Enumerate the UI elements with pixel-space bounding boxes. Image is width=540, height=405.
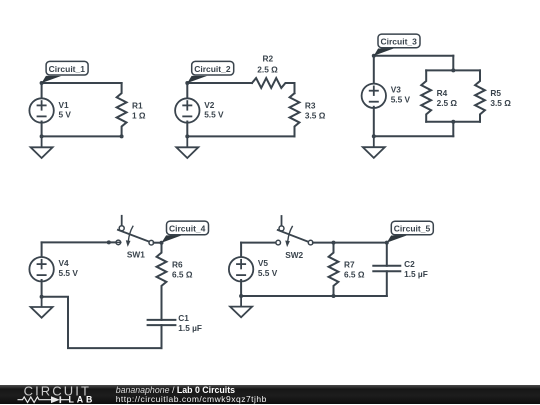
node dot top V3 xyxy=(372,54,376,58)
node dot R7 top xyxy=(332,241,336,245)
V2 value label xyxy=(204,100,224,120)
resistor R6 xyxy=(157,243,167,296)
svg-text:1 Ω: 1 Ω xyxy=(132,110,146,120)
ground C3 xyxy=(363,136,385,158)
svg-text:6.5 Ω: 6.5 Ω xyxy=(172,270,193,280)
node dot bottom R1 xyxy=(120,134,124,138)
node dot bottom V4 xyxy=(40,295,44,299)
ground C5 xyxy=(230,296,252,317)
wire V3 bottom lead xyxy=(373,107,375,136)
resistor R5 xyxy=(475,70,485,121)
wire V2 to R2 xyxy=(187,82,252,84)
voltage source V1 xyxy=(29,98,53,122)
voltage source V3 xyxy=(362,84,386,108)
svg-text:V1: V1 xyxy=(59,100,70,110)
switch SW1 xyxy=(116,216,154,247)
wire V3 top lead xyxy=(373,56,375,83)
R2 value label xyxy=(257,54,278,75)
svg-text:3.5 Ω: 3.5 Ω xyxy=(305,110,326,120)
R3 value label xyxy=(305,100,326,120)
ground C2 xyxy=(176,136,198,158)
node dot top V2 xyxy=(185,81,189,85)
svg-text:SW1: SW1 xyxy=(127,250,145,260)
wire V5 to SW2 xyxy=(241,242,276,244)
wire R6 to C1cap xyxy=(161,296,163,320)
wire C1cap down xyxy=(161,325,163,348)
wire bottom C4 xyxy=(42,297,162,348)
svg-text:SW2: SW2 xyxy=(285,250,303,260)
svg-text:V2: V2 xyxy=(204,100,215,110)
svg-text:5.5 V: 5.5 V xyxy=(59,268,79,278)
wire bottom of R5 to junction xyxy=(453,121,480,123)
wire SW2 to R7 xyxy=(313,242,334,244)
svg-text:5.5 V: 5.5 V xyxy=(258,268,278,278)
wire top C1 xyxy=(42,82,122,84)
label callout Circuit_4 xyxy=(162,221,209,243)
svg-text:R6: R6 xyxy=(172,260,183,270)
R7 value label xyxy=(344,260,365,280)
voltage source V2 xyxy=(175,98,199,122)
switch SW2 xyxy=(276,216,313,247)
node dot bottom V2 xyxy=(185,134,189,138)
wire top C3 xyxy=(374,55,454,57)
node dot R7 bottom xyxy=(332,294,336,298)
ground C1 xyxy=(31,136,53,158)
C2 value label xyxy=(404,259,428,279)
wire V5 bottom lead xyxy=(240,280,242,296)
node dot bottom V5 xyxy=(239,294,243,298)
svg-text:3.5 Ω: 3.5 Ω xyxy=(490,98,511,108)
node dot C2 top xyxy=(385,241,389,245)
voltage source V4 xyxy=(29,257,53,281)
svg-text:Circuit_4: Circuit_4 xyxy=(169,224,206,234)
voltage source V5 xyxy=(229,257,253,281)
node dot junction before SW1 xyxy=(107,240,111,244)
V3 value label xyxy=(391,85,411,105)
svg-text:R4: R4 xyxy=(437,88,448,98)
label callout Circuit_1 xyxy=(42,61,89,83)
wire V2 top lead xyxy=(186,83,188,100)
V1 value label xyxy=(59,100,72,120)
R5 value label xyxy=(490,88,511,108)
ground C4 xyxy=(31,297,53,318)
resistor R1 xyxy=(117,83,127,136)
svg-text:1.5 µF: 1.5 µF xyxy=(178,323,202,333)
capacitor C2 xyxy=(373,266,400,272)
node dot R6 top xyxy=(160,241,164,245)
wire C2 bottom lead xyxy=(386,271,388,296)
svg-text:Circuit_2: Circuit_2 xyxy=(194,64,231,74)
svg-text:1.5 µF: 1.5 µF xyxy=(404,269,428,279)
wire R7 to C2 branch xyxy=(334,242,387,244)
wire bottom of R4 to junction xyxy=(426,121,453,123)
label callout Circuit_3 xyxy=(374,34,420,56)
wire bottom C5 xyxy=(241,295,387,297)
wire C2 top lead xyxy=(386,243,388,266)
wire V5 top lead xyxy=(240,243,242,259)
capacitor C1 xyxy=(148,320,176,325)
wire junction to R5 xyxy=(453,69,480,71)
wire V1 bottom lead xyxy=(41,122,43,137)
node dot bottom V1 xyxy=(40,134,44,138)
svg-text:5.5 V: 5.5 V xyxy=(204,110,224,120)
svg-text:6.5 Ω: 6.5 Ω xyxy=(344,270,365,280)
C1 value label xyxy=(178,313,202,333)
CircuitLab logo resistor-diode glyph xyxy=(18,396,70,403)
wire bottom C3 xyxy=(374,135,454,137)
R6 value label xyxy=(172,260,193,280)
node dot top V1 xyxy=(40,81,44,85)
svg-text:http://circuitlab.com/cmwk9xqz: http://circuitlab.com/cmwk9xqz7tjhb xyxy=(116,394,267,404)
svg-text:Circuit_5: Circuit_5 xyxy=(394,224,431,234)
wire junction down xyxy=(452,122,454,136)
node dot parallel top junction xyxy=(451,68,455,72)
wire SW1 to R6 xyxy=(154,242,162,244)
svg-text:V5: V5 xyxy=(258,258,269,268)
wire V2 bottom lead xyxy=(186,122,188,137)
svg-text:LAB: LAB xyxy=(69,395,96,405)
label callout Circuit_2 xyxy=(187,61,233,83)
svg-text:C1: C1 xyxy=(178,313,189,323)
R4 value label xyxy=(437,88,458,108)
V4 value label xyxy=(59,258,79,278)
wire V4 bottom lead xyxy=(41,280,43,297)
wire junction to R4 xyxy=(426,69,453,71)
wire V4 to SW1 xyxy=(42,241,120,243)
wire R2 to R3 corner xyxy=(294,83,296,93)
svg-text:Circuit_3: Circuit_3 xyxy=(381,37,418,47)
svg-text:R7: R7 xyxy=(344,260,355,270)
wire V1 top lead xyxy=(41,83,43,100)
wire V4 top lead xyxy=(41,242,43,258)
node dot bottom V3 xyxy=(372,134,376,138)
svg-text:R1: R1 xyxy=(132,100,143,110)
wire down to parallel junction xyxy=(452,56,454,71)
svg-text:2.5 Ω: 2.5 Ω xyxy=(437,98,458,108)
svg-text:C2: C2 xyxy=(404,259,415,269)
label callout Circuit_5 xyxy=(387,221,434,242)
node dot parallel bottom junction xyxy=(451,120,455,124)
svg-text:V3: V3 xyxy=(391,85,402,95)
resistor R3 xyxy=(290,93,300,136)
resistor R7 xyxy=(329,243,339,296)
resistor R4 xyxy=(421,70,431,121)
svg-text:R2: R2 xyxy=(263,54,274,64)
svg-text:V4: V4 xyxy=(59,258,70,268)
R1 value label xyxy=(132,100,146,120)
svg-text:Circuit_1: Circuit_1 xyxy=(49,64,86,74)
wire bottom C2 xyxy=(187,135,294,137)
resistor R2 xyxy=(252,78,295,88)
svg-text:5.5 V: 5.5 V xyxy=(391,95,411,105)
wire bottom C1 xyxy=(42,135,122,137)
svg-text:R3: R3 xyxy=(305,100,316,110)
svg-text:5 V: 5 V xyxy=(59,110,72,120)
svg-text:R5: R5 xyxy=(490,88,501,98)
svg-text:2.5 Ω: 2.5 Ω xyxy=(257,65,278,75)
V5 value label xyxy=(258,258,278,278)
